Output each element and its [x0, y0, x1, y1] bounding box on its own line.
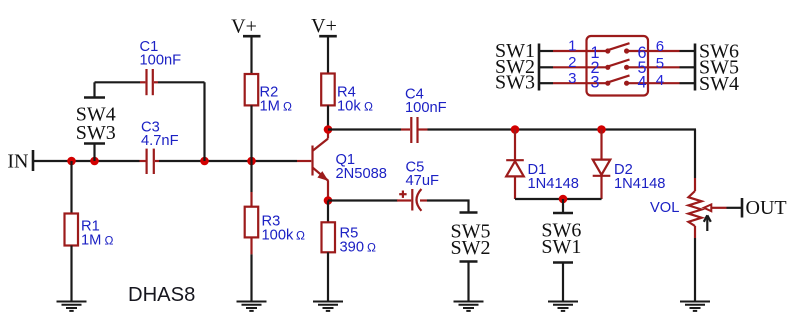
node junction D1 — [511, 125, 520, 134]
svg-text:SW3: SW3 — [495, 71, 535, 93]
resistor R5 — [322, 201, 336, 301]
svg-text:Ω: Ω — [367, 241, 376, 255]
svg-text:Ω: Ω — [283, 100, 292, 114]
svg-text:3: 3 — [590, 74, 599, 92]
node SW5 terminal bar — [460, 211, 478, 214]
capacitor C4 — [401, 117, 428, 143]
wire emitter row to C5 — [328, 199, 398, 201]
node junction D2 — [597, 125, 606, 134]
node junction emitter — [324, 196, 333, 205]
switch pole 1 — [605, 43, 629, 53]
wire diode bottoms — [515, 198, 602, 200]
node junction R2/R3 — [247, 157, 256, 166]
wire main input line — [34, 160, 140, 162]
wire top line — [328, 128, 401, 130]
svg-text:DHAS8: DHAS8 — [128, 284, 195, 306]
node IN terminal — [32, 150, 35, 171]
svg-text:SW1: SW1 — [541, 236, 581, 258]
potentiometer VOL — [688, 178, 726, 238]
resistor R1 — [65, 161, 79, 301]
capacitor C3 — [140, 149, 160, 174]
svg-text:OUT: OUT — [746, 197, 787, 219]
svg-text:2: 2 — [568, 54, 576, 71]
wire switch row 2 right — [627, 66, 695, 68]
ground VOL — [680, 302, 710, 311]
svg-text:5: 5 — [656, 55, 664, 72]
wire switch row 3 right — [627, 82, 695, 84]
svg-text:IN: IN — [7, 151, 28, 173]
svg-text:V+: V+ — [311, 15, 337, 37]
transistor Q1 — [297, 130, 329, 201]
ground SW1 — [548, 302, 578, 311]
svg-text:1M: 1M — [81, 233, 101, 249]
ground R1 — [57, 302, 87, 311]
ground SW2 — [454, 302, 484, 311]
svg-text:SW3: SW3 — [76, 122, 116, 144]
node SW6 terminal — [553, 199, 573, 213]
svg-text:V+: V+ — [231, 16, 257, 38]
svg-text:4.7nF: 4.7nF — [141, 133, 179, 149]
svg-text:100nF: 100nF — [140, 53, 182, 69]
ground R5 — [313, 302, 343, 311]
capacitor C1 — [140, 69, 158, 95]
node junction diode bottom — [559, 195, 568, 204]
switch pole 2 — [605, 60, 629, 70]
resistor R2 — [245, 37, 259, 161]
svg-text:Ω: Ω — [364, 100, 373, 114]
svg-text:100nF: 100nF — [405, 100, 447, 116]
node junction C1 leg — [200, 157, 209, 166]
power V+ (left) — [231, 16, 260, 38]
ground R3 — [237, 302, 267, 311]
node left terminal bar — [538, 44, 541, 91]
svg-text:1N4148: 1N4148 — [528, 176, 579, 192]
wire switch row 1 right — [627, 50, 695, 52]
node SW3 terminal — [84, 144, 105, 162]
node right terminal bar — [694, 44, 697, 91]
diode D1 — [506, 130, 524, 200]
svg-text:390: 390 — [340, 240, 365, 256]
svg-text:1N4148: 1N4148 — [614, 176, 665, 192]
svg-text:6: 6 — [656, 38, 664, 55]
wire wiper to OUT — [727, 207, 742, 209]
svg-text:3: 3 — [568, 70, 576, 87]
svg-text:4: 4 — [656, 72, 664, 89]
node junction collector — [324, 125, 333, 134]
resistor R4 — [321, 37, 335, 129]
svg-text:1M: 1M — [260, 99, 280, 115]
svg-text:2N5088: 2N5088 — [336, 166, 387, 182]
node OUT terminal — [741, 198, 744, 218]
wire switch row 1 left — [540, 50, 607, 52]
potentiometer adjust arrow — [704, 215, 711, 231]
capacitor C5 polarized — [397, 189, 427, 211]
resistor R3 — [245, 161, 259, 301]
svg-text:VOL: VOL — [650, 200, 679, 216]
node SW1 ground terminal — [553, 263, 573, 301]
wire C1 branch horizontal — [95, 81, 141, 83]
wire C1 branch right vertical — [203, 82, 205, 161]
svg-text:47uF: 47uF — [406, 173, 440, 189]
node SW2 ground terminal — [460, 262, 478, 301]
node junction SW3 tick — [90, 157, 99, 166]
wire switch row 3 left — [540, 82, 607, 84]
svg-text:SW4: SW4 — [699, 73, 739, 95]
switch box S1 — [587, 36, 649, 96]
wire C5 to SW5 terminal — [427, 201, 469, 212]
svg-text:4: 4 — [638, 74, 647, 92]
wire switch row 2 left — [540, 66, 607, 68]
svg-text:SW2: SW2 — [451, 237, 491, 259]
node SW4 terminal — [84, 82, 105, 97]
switch pole 3 — [605, 75, 629, 85]
wire top right corner down to pot — [694, 130, 696, 179]
svg-text:100k: 100k — [262, 228, 295, 244]
wire pot bottom to ground — [694, 238, 696, 301]
wire main line after C3 — [159, 160, 297, 162]
diode D2 — [593, 130, 611, 200]
svg-text:1: 1 — [568, 38, 576, 55]
svg-text:10k: 10k — [337, 99, 361, 115]
power V+ (right) — [311, 15, 337, 37]
node junction R1 — [67, 157, 76, 166]
svg-text:Ω: Ω — [296, 229, 305, 243]
svg-text:Ω: Ω — [105, 234, 114, 248]
